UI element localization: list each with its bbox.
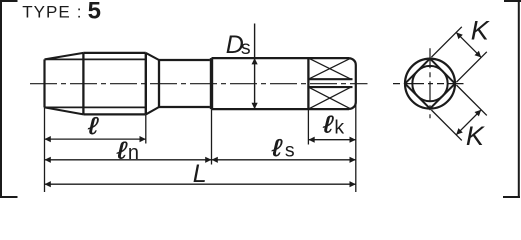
rear chamfer vertical <box>158 60 160 107</box>
chamfer top edge <box>45 53 84 60</box>
svg-text:TYPE: TYPE <box>22 3 70 22</box>
extension line at tip <box>44 107 46 192</box>
square top flat cross 1 <box>308 58 351 79</box>
label ln <box>116 137 128 164</box>
neck bottom edge <box>159 106 210 108</box>
extension line at tap end <box>355 103 357 192</box>
svg-text:s: s <box>241 37 251 59</box>
Ds dimension line <box>254 24 256 110</box>
extension line at thread end <box>145 115 147 144</box>
K bottom dimension line <box>456 110 481 135</box>
square top flat cross 2 <box>308 58 351 79</box>
end view square <box>405 59 455 109</box>
border frame bottom-left tick <box>0 196 18 198</box>
svg-text:s: s <box>285 139 295 161</box>
K bottom extension line 2 <box>431 110 461 140</box>
chamfer bottom edge <box>45 107 84 114</box>
end view outer circle <box>405 59 455 109</box>
end view vertical centerline <box>429 48 431 118</box>
label l <box>87 112 99 139</box>
K top extension line 1 <box>431 27 461 57</box>
svg-text:K: K <box>471 16 490 46</box>
border frame left <box>0 0 2 198</box>
shank top edge <box>212 57 350 59</box>
border frame top-left tick <box>0 0 18 2</box>
square start vertical <box>307 58 309 109</box>
rear chamfer top edge <box>146 53 159 60</box>
svg-text:5: 5 <box>88 0 101 24</box>
thread end vertical <box>145 53 147 115</box>
shank bottom edge <box>212 108 350 110</box>
end view inner circle <box>412 66 447 101</box>
K top dimension line <box>456 32 481 57</box>
extension line at shank boundary <box>211 109 213 164</box>
svg-text:n: n <box>128 142 139 164</box>
dimension line lk <box>308 139 355 141</box>
label ls <box>271 134 283 161</box>
svg-text:L: L <box>193 160 207 188</box>
svg-text:ℓ: ℓ <box>87 112 99 139</box>
neck top edge <box>159 59 210 61</box>
shank boundary thick line <box>210 58 213 109</box>
extension line at square start <box>307 109 309 144</box>
dimension line l <box>45 138 146 140</box>
rear chamfer bottom edge <box>146 107 159 114</box>
label lk <box>322 111 334 138</box>
border frame top-right tick <box>504 0 521 2</box>
square bottom flat cross 1 <box>308 87 351 109</box>
border frame right <box>518 0 520 198</box>
thread major top edge <box>83 52 145 54</box>
thread major bottom edge <box>83 113 145 115</box>
svg-text:k: k <box>334 116 344 138</box>
square bottom flat cross 2 <box>308 87 351 109</box>
square bottom flat upper edge <box>308 86 352 88</box>
dimension line ln <box>45 159 212 161</box>
svg-text:ℓ: ℓ <box>322 111 334 138</box>
K bottom extension line 1 <box>456 85 486 115</box>
shank rounded end <box>349 58 356 109</box>
centerline side view <box>30 83 368 85</box>
svg-text:ℓ: ℓ <box>271 134 283 161</box>
thread minor diameter top line <box>45 58 146 60</box>
thread minor diameter bottom line <box>45 106 146 108</box>
end view horizontal centerline <box>393 83 464 85</box>
tap tip face <box>43 59 45 107</box>
svg-text:ℓ: ℓ <box>116 137 128 164</box>
K top extension line 2 <box>456 52 486 82</box>
chamfer boundary vertical <box>82 53 84 115</box>
square top flat lower edge <box>308 78 352 80</box>
dimension line ls <box>212 159 356 161</box>
border frame bottom-right tick <box>503 196 520 198</box>
svg-text:K: K <box>466 121 485 151</box>
dimension line L <box>45 183 356 185</box>
svg-text::: : <box>77 3 82 22</box>
